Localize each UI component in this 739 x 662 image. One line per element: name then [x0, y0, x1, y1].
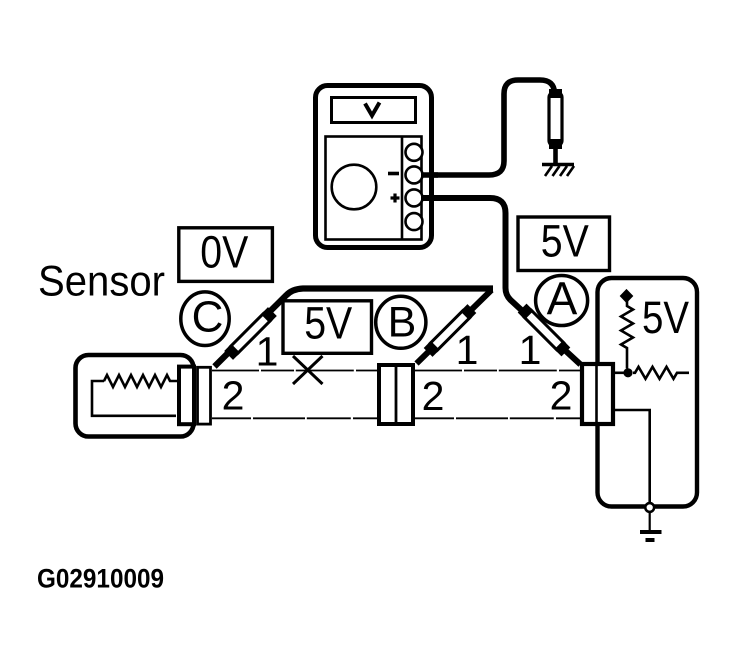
wire stub: positive lead at terminal [421, 195, 438, 201]
ECU ground pass-through circle [645, 503, 654, 512]
wire: harness line 2 (bottom, sensor to ECU) [212, 417, 581, 419]
voltage box 0V (probe C reading) [179, 228, 273, 282]
sensor connector shell [179, 367, 194, 425]
node A circled letter [536, 276, 588, 326]
ground probe stem [553, 146, 558, 164]
ground probe wire stub overlays [549, 89, 562, 149]
svg-text:1: 1 [519, 327, 542, 373]
minus polarity mark [388, 172, 399, 176]
voltmeter body [316, 86, 432, 248]
ECU connector divider [595, 362, 598, 426]
voltmeter selector dial [332, 165, 377, 210]
ECU connector [582, 364, 613, 424]
svg-text:G02910009: G02910009 [37, 563, 164, 593]
sensor internal thermistor resistor [92, 375, 177, 416]
voltmeter terminal jack 3 (V+) [406, 189, 423, 206]
voltmeter terminal jack 2 (COM) [406, 166, 423, 183]
wire: to ground symbol [649, 512, 651, 530]
test probe A body [521, 307, 568, 354]
node C circled letter [181, 292, 229, 346]
svg-text:2: 2 [550, 373, 573, 419]
wire stub: negative lead at terminal [421, 172, 438, 178]
wire: ECU pin2 to ground [613, 410, 650, 504]
wire: harness line 1 (top, sensor to ECU) [212, 370, 581, 372]
ECU node junction dot [623, 368, 632, 377]
svg-text:2: 2 [222, 373, 245, 419]
ground symbol (chassis, hatched) [542, 165, 574, 177]
ECU input resistor (horizontal zigzag) [633, 367, 689, 379]
ground probe (negative lead) body [549, 92, 562, 146]
sensor connector mating half [198, 367, 211, 424]
test probe B body [427, 307, 474, 354]
svg-text:5V: 5V [642, 292, 689, 343]
svg-text:B: B [388, 299, 417, 347]
voltmeter display window [332, 98, 416, 123]
plus polarity mark [391, 194, 400, 203]
voltmeter terminal column divider [401, 137, 404, 240]
ECU body [598, 278, 698, 507]
svg-text:5V: 5V [304, 298, 352, 349]
wire: ECU pin1 to junction [613, 371, 625, 374]
voltmeter terminal jack 4 [406, 213, 423, 230]
voltage box 5V (probe A reading) [518, 217, 610, 271]
svg-text:1: 1 [256, 329, 279, 375]
break mark X on harness line 1 [293, 356, 323, 384]
test probe B wire stub overlays [428, 309, 472, 353]
test probe C body [227, 310, 274, 357]
ECU pull-up resistor (vertical zigzag) [621, 301, 633, 369]
ground symbol (ECU ground) [640, 532, 662, 540]
wire: junction to probe B [417, 290, 492, 364]
voltmeter display V reading [365, 103, 380, 116]
svg-text:2: 2 [422, 373, 445, 419]
voltmeter front panel [326, 137, 422, 240]
harness middle connector [379, 365, 413, 424]
test probe A wire stub overlays [522, 308, 566, 352]
svg-text:0V: 0V [200, 226, 248, 277]
svg-text:A: A [547, 272, 578, 324]
svg-text:5V: 5V [541, 215, 589, 266]
harness middle connector divider [395, 363, 398, 426]
svg-text:1: 1 [456, 327, 479, 373]
voltmeter terminal jack 1 [406, 144, 423, 161]
voltmeter positive lead wire [420, 198, 581, 365]
test probe C wire stub overlays [229, 312, 273, 356]
sensor body [76, 355, 194, 437]
voltmeter negative lead wire [420, 80, 555, 175]
voltage box 5V (probe B reading) [283, 301, 372, 354]
ECU 5V supply diamond [621, 290, 633, 302]
node B circled letter [376, 296, 426, 348]
svg-text:C: C [192, 293, 224, 342]
wire: junction bus to probe C [215, 289, 494, 367]
svg-text:Sensor: Sensor [38, 258, 165, 306]
